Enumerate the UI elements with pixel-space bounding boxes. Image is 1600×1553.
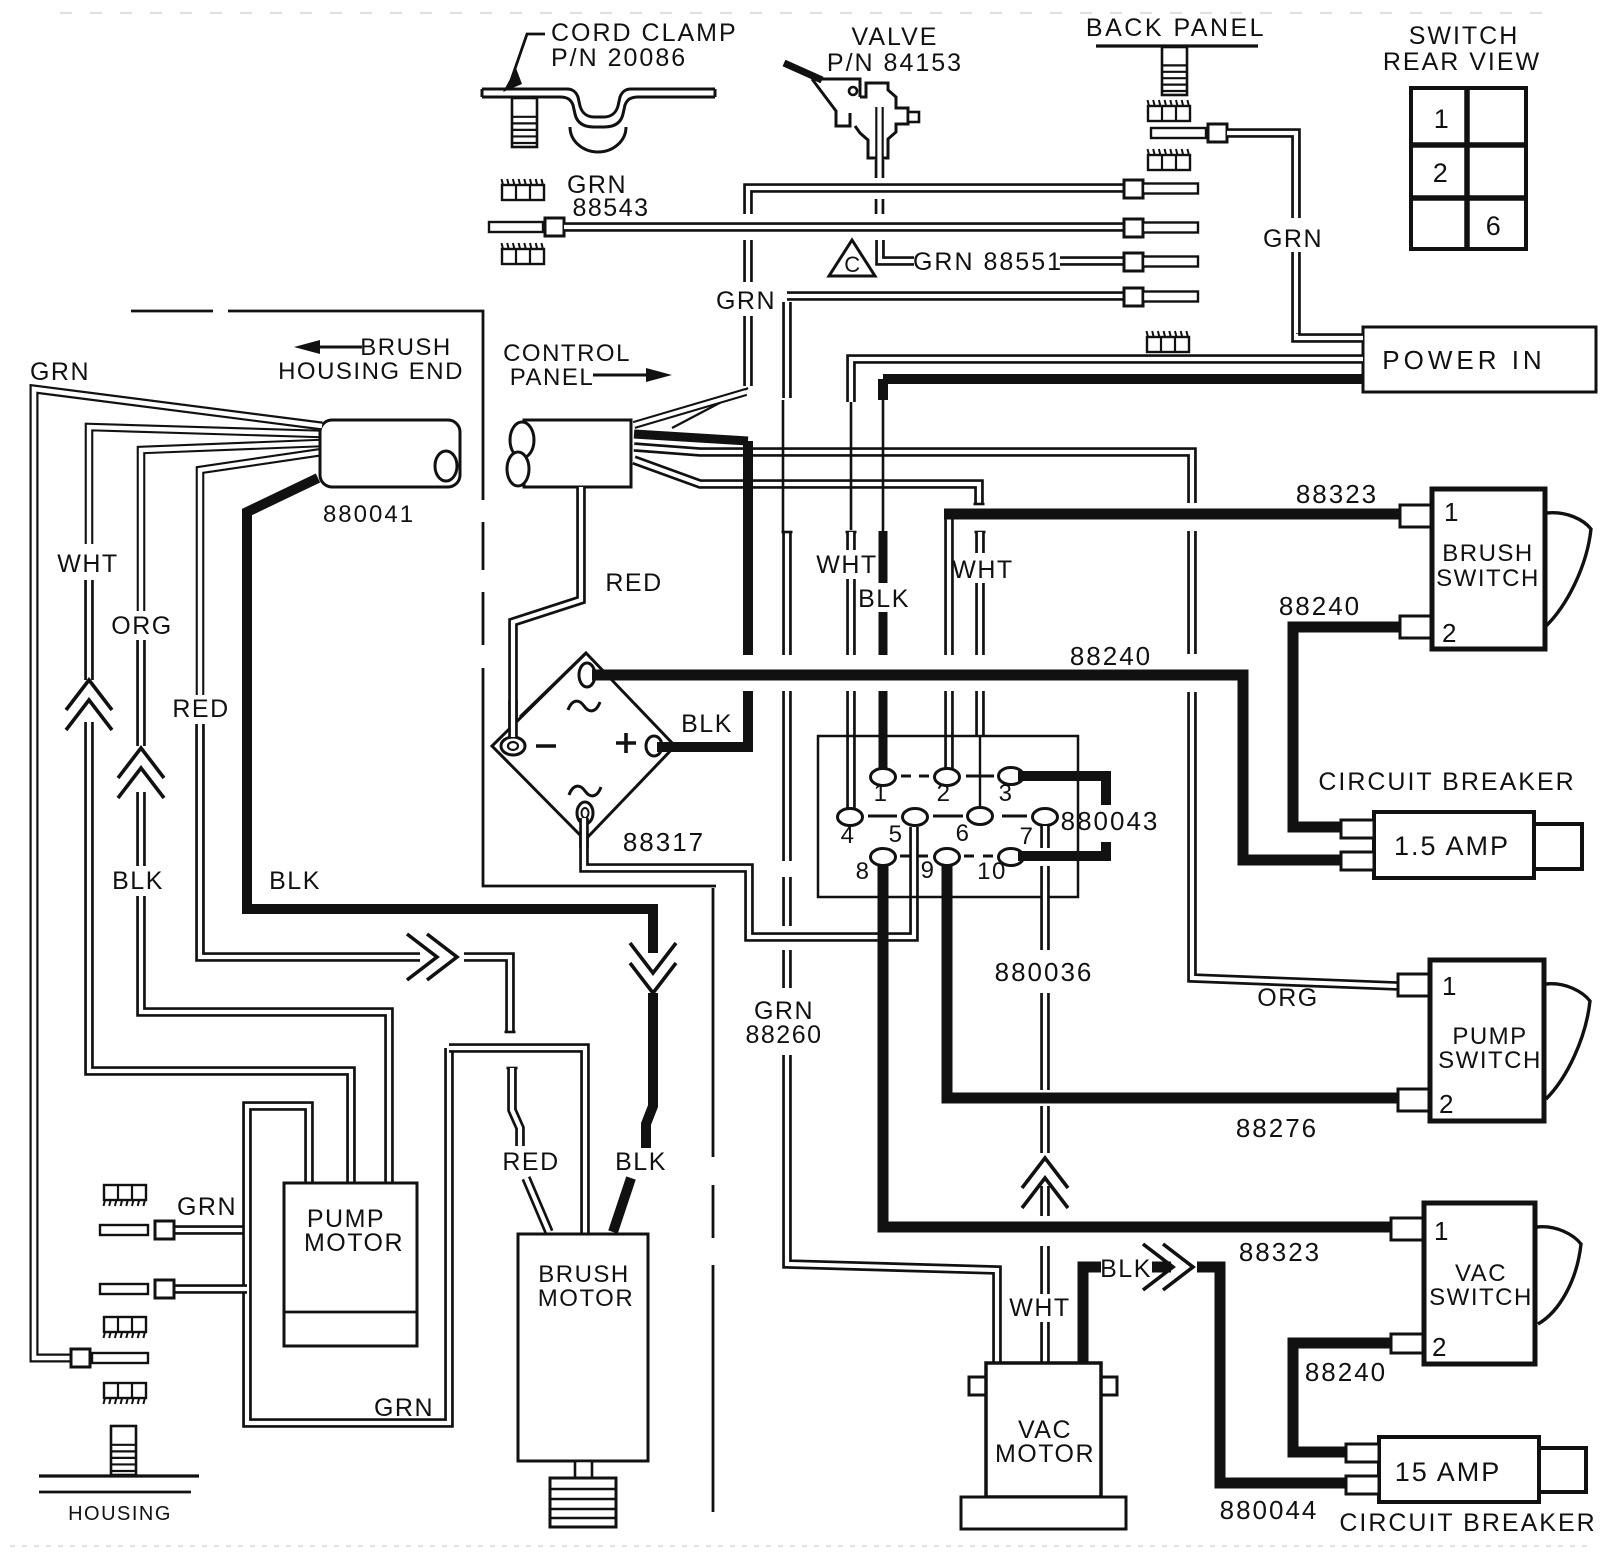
svg-text:BLK: BLK: [858, 585, 910, 613]
svg-text:88543: 88543: [572, 194, 649, 222]
svg-text:HOUSING: HOUSING: [68, 1503, 172, 1525]
svg-text:5: 5: [889, 821, 904, 848]
svg-text:BRUSH: BRUSH: [538, 1261, 630, 1288]
svg-text:HOUSING END: HOUSING END: [278, 358, 464, 385]
svg-text:1: 1: [874, 780, 889, 807]
svg-text:SWITCH: SWITCH: [1438, 1047, 1542, 1074]
svg-text:CIRCUIT BREAKER: CIRCUIT BREAKER: [1318, 768, 1575, 796]
svg-text:MOTOR: MOTOR: [995, 1440, 1095, 1468]
svg-text:1: 1: [1444, 497, 1460, 527]
svg-text:BACK PANEL: BACK PANEL: [1086, 14, 1266, 42]
svg-text:88260: 88260: [745, 1021, 822, 1049]
svg-text:88240: 88240: [1305, 1357, 1387, 1387]
svg-text:CONTROL: CONTROL: [503, 340, 631, 367]
svg-text:4: 4: [841, 822, 856, 849]
svg-text:BLK: BLK: [269, 867, 321, 895]
svg-text:88276: 88276: [1236, 1113, 1318, 1143]
svg-text:GRN: GRN: [30, 358, 90, 386]
svg-text:9: 9: [921, 857, 936, 884]
svg-text:1.5 AMP: 1.5 AMP: [1394, 831, 1510, 861]
svg-text:3: 3: [999, 780, 1014, 807]
svg-text:1: 1: [1434, 104, 1451, 134]
svg-text:CORD CLAMP: CORD CLAMP: [551, 19, 738, 47]
svg-text:SWITCH: SWITCH: [1409, 22, 1520, 50]
svg-text:1: 1: [1434, 1216, 1450, 1246]
svg-text:880036: 880036: [995, 957, 1094, 987]
svg-text:P/N 20086: P/N 20086: [551, 44, 687, 72]
svg-text:WHT: WHT: [816, 551, 877, 579]
svg-text:880043: 880043: [1061, 806, 1160, 836]
svg-text:7: 7: [1020, 823, 1035, 850]
svg-text:880044: 880044: [1220, 1495, 1319, 1525]
svg-text:CIRCUIT BREAKER: CIRCUIT BREAKER: [1339, 1509, 1596, 1537]
svg-text:BLK: BLK: [112, 867, 164, 895]
svg-text:88240: 88240: [1279, 591, 1361, 621]
svg-text:GRN: GRN: [716, 287, 776, 315]
svg-text:88317: 88317: [623, 827, 705, 857]
svg-text:2: 2: [1433, 158, 1450, 188]
svg-text:VALVE: VALVE: [852, 23, 939, 51]
svg-text:C: C: [844, 252, 861, 277]
svg-text:88323: 88323: [1239, 1237, 1321, 1267]
svg-text:RED: RED: [605, 569, 662, 597]
svg-text:P/N 84153: P/N 84153: [827, 49, 963, 77]
svg-text:2: 2: [1439, 1089, 1455, 1119]
svg-text:6: 6: [956, 820, 971, 847]
svg-text:SWITCH: SWITCH: [1429, 1284, 1533, 1311]
svg-text:2: 2: [937, 780, 952, 807]
svg-text:POWER IN: POWER IN: [1382, 345, 1545, 375]
svg-text:WHT: WHT: [952, 556, 1013, 584]
svg-text:REAR VIEW: REAR VIEW: [1383, 48, 1541, 76]
svg-text:RED: RED: [172, 695, 229, 723]
svg-text:ORG: ORG: [1257, 984, 1318, 1012]
svg-text:ORG: ORG: [111, 612, 172, 640]
svg-text:1: 1: [1442, 971, 1458, 1001]
svg-text:BLK: BLK: [681, 710, 733, 738]
svg-text:VAC: VAC: [1455, 1260, 1507, 1287]
svg-text:10: 10: [977, 858, 1007, 885]
svg-text:WHT: WHT: [1009, 1294, 1070, 1322]
svg-text:BRUSH: BRUSH: [1442, 540, 1534, 567]
svg-text:2: 2: [1442, 618, 1458, 648]
svg-text:GRN: GRN: [177, 1193, 237, 1221]
svg-text:880041: 880041: [323, 501, 415, 528]
svg-text:WHT: WHT: [57, 550, 118, 578]
svg-text:6: 6: [1486, 211, 1503, 241]
svg-text:BRUSH: BRUSH: [360, 334, 452, 361]
svg-text:BLK: BLK: [1100, 1255, 1152, 1283]
svg-text:RED: RED: [502, 1148, 559, 1176]
svg-text:88323: 88323: [1296, 479, 1378, 509]
svg-text:88240: 88240: [1070, 641, 1152, 671]
svg-text:SWITCH: SWITCH: [1436, 565, 1540, 592]
svg-text:8: 8: [856, 858, 871, 885]
svg-text:BLK: BLK: [615, 1148, 667, 1176]
svg-text:GRN: GRN: [374, 1394, 434, 1422]
svg-text:MOTOR: MOTOR: [538, 1285, 634, 1312]
svg-text:PUMP: PUMP: [1452, 1023, 1527, 1050]
svg-text:15 AMP: 15 AMP: [1395, 1457, 1502, 1487]
svg-text:GRN 88551: GRN 88551: [913, 248, 1063, 276]
svg-text:GRN: GRN: [1263, 225, 1323, 253]
svg-text:MOTOR: MOTOR: [304, 1229, 404, 1257]
svg-text:2: 2: [1432, 1332, 1448, 1362]
svg-text:PANEL: PANEL: [510, 364, 594, 391]
